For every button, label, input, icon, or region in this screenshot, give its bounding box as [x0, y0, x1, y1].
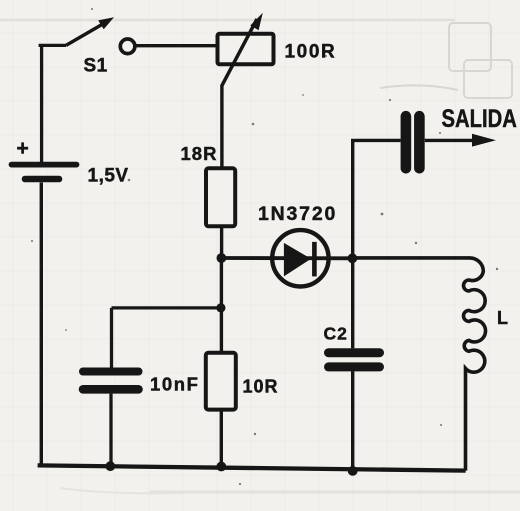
svg-text:C2: C2 — [324, 323, 348, 343]
node A junction dot — [217, 253, 227, 263]
capacitor C2 bottom plate — [329, 362, 380, 371]
switch S1 arrowhead — [98, 17, 114, 29]
resistor 10R body — [206, 353, 236, 410]
wire: coupling cap to output arrow — [425, 139, 478, 142]
wire: C2 down to bottom rail — [351, 371, 354, 471]
wire: left rail vertical top (battery + side) — [39, 45, 66, 162]
svg-text:1,5V: 1,5V — [88, 166, 129, 187]
diode D1 cathode bar — [312, 242, 317, 277]
capacitor C2 top plate — [329, 348, 380, 357]
diode D1 triangle — [284, 243, 311, 277]
wire: node B up to output corner — [351, 140, 354, 258]
battery B1 short plate — [25, 176, 59, 183]
svg-text:SALIDA: SALIDA — [442, 104, 517, 133]
node F junction dot — [216, 462, 226, 472]
svg-text:S1: S1 — [84, 56, 108, 77]
wire: 10R to bottom rail — [220, 410, 223, 467]
svg-text:10R: 10R — [243, 377, 279, 397]
wire: 10nF branch vertical — [110, 308, 113, 368]
wire: pot wiper down to 18R — [220, 86, 223, 169]
node D junction dot — [216, 303, 225, 312]
node B junction dot — [348, 253, 358, 263]
node E junction dot — [105, 461, 115, 471]
coupling capacitor right plate — [414, 116, 425, 168]
inductor L coil — [464, 258, 486, 471]
wire: output horizontal to coupling cap — [351, 139, 401, 142]
diode D1 circle — [272, 230, 328, 286]
switch S1 contact circle — [120, 39, 135, 54]
svg-text:100R: 100R — [285, 42, 337, 63]
wire: node A through diode to node B — [221, 256, 352, 260]
wire: node B down to C2 — [351, 258, 354, 348]
switch S1 lever — [66, 24, 104, 46]
potentiometer arrowhead — [250, 13, 262, 30]
wire: left rail below battery — [40, 183, 43, 467]
wire: node A down to node D — [220, 258, 223, 353]
svg-text:1N3720: 1N3720 — [258, 203, 337, 225]
battery B1 long plate — [12, 162, 77, 168]
capacitor 10nF top plate — [83, 368, 139, 376]
svg-text:L: L — [497, 308, 508, 328]
wire: 10nF to bottom rail — [109, 394, 112, 467]
capacitor 10nF bottom plate — [83, 385, 139, 394]
wire: switch to potentiometer — [135, 44, 218, 47]
resistor 18R body — [206, 168, 235, 226]
svg-text:10nF: 10nF — [150, 374, 200, 395]
svg-text:+: + — [17, 137, 29, 160]
coupling capacitor left plate — [401, 116, 412, 168]
wire: 18R to node A — [220, 226, 223, 258]
potentiometer arrow shaft — [222, 19, 257, 86]
node C junction dot — [348, 466, 358, 476]
wire: bottom rail — [38, 465, 466, 470]
potentiometer 100R body — [218, 34, 274, 65]
wire: node B to inductor top — [352, 256, 470, 260]
output arrowhead — [472, 134, 496, 147]
svg-text:18R: 18R — [181, 143, 218, 164]
wire: node D left to 10nF branch — [112, 306, 221, 309]
